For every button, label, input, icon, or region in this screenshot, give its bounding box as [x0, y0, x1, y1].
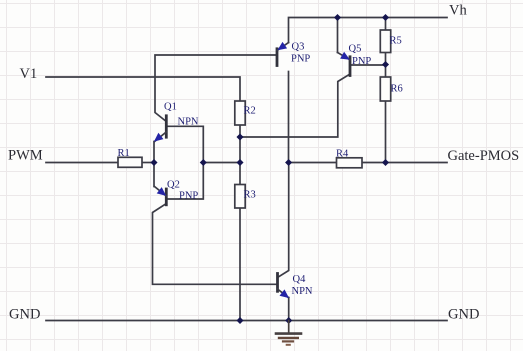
wire Q4 collector to gate line	[278, 163, 289, 278]
wire Q2 collector to Q4 base	[153, 204, 278, 285]
svg-text:PNP: PNP	[179, 190, 198, 201]
svg-text:Q2: Q2	[167, 180, 180, 191]
wire R5 bottom to R6 top	[385, 53, 387, 78]
transistor Q4	[278, 274, 290, 299]
node junction R2/R3 mid	[236, 159, 243, 166]
wire R5 top stub	[385, 18, 387, 31]
node junction emitters PWM	[150, 159, 157, 166]
wire R3 bottom to ground rail	[239, 208, 241, 321]
node junction top R5	[382, 14, 389, 21]
svg-text:R3: R3	[244, 190, 256, 201]
wire Q4 emitter to ground rail	[288, 298, 290, 321]
node junction top Q5	[334, 14, 341, 21]
svg-text:Q4: Q4	[293, 274, 307, 285]
ground	[276, 321, 301, 345]
svg-text:NPN: NPN	[178, 117, 199, 128]
svg-text:R5: R5	[390, 36, 402, 47]
svg-text:Gate-PMOS: Gate-PMOS	[448, 148, 520, 164]
svg-text:NPN: NPN	[292, 286, 313, 297]
svg-text:PNP: PNP	[291, 54, 310, 65]
node junction R5/R6 Q5 base	[382, 61, 389, 68]
wire Q5 base to R5/R6 node	[350, 64, 386, 66]
wire R1 to emitters node	[142, 162, 154, 164]
wire Q5 collector to R2/R3 node	[240, 74, 350, 137]
svg-text:Q1: Q1	[164, 102, 177, 113]
resistor R2	[235, 101, 245, 125]
wire Q1 collector to Q3 base	[155, 55, 277, 122]
wire Q1 base to Q2 base vertical	[166, 126, 203, 199]
transistor Q2	[155, 187, 167, 205]
resistor R4	[337, 158, 363, 168]
svg-text:R4: R4	[336, 149, 349, 160]
resistor R5	[380, 30, 390, 53]
wire GND rail	[46, 320, 447, 322]
resistor R1	[118, 157, 142, 167]
resistor R6	[380, 77, 390, 101]
wire gate line through R4	[289, 162, 448, 164]
transistor Q1	[154, 116, 166, 142]
transistor Q3	[277, 42, 289, 66]
transistor Q5	[338, 52, 351, 76]
wire R2 bottom through nodes to R3 top	[239, 125, 241, 185]
wire Q1 emitter vertical	[153, 142, 155, 187]
svg-text:V1: V1	[20, 66, 38, 82]
node junction R4 to R6	[382, 159, 389, 166]
wire bases node to R2/R3 node	[203, 162, 240, 164]
svg-text:GND: GND	[9, 307, 40, 323]
svg-text:PWM: PWM	[8, 148, 43, 164]
node junction R3 ground	[236, 317, 243, 324]
svg-text:R2: R2	[244, 106, 256, 117]
svg-text:R6: R6	[391, 84, 403, 95]
wire Q3 collector down to gate line	[288, 72, 290, 163]
svg-text:R1: R1	[118, 148, 130, 159]
node junction Q5 collector tap	[236, 133, 243, 140]
wire top rail Vh	[289, 18, 448, 43]
svg-text:Q3: Q3	[292, 42, 305, 53]
wire R6 bottom to gate line	[385, 101, 387, 163]
wire V1 line to R2 top	[46, 77, 240, 101]
node junction Q4 emitter ground	[285, 317, 292, 324]
node junction bases	[200, 159, 207, 166]
svg-text:Vh: Vh	[449, 3, 467, 19]
node junction Q3/Q4 collectors gate line	[285, 159, 292, 166]
svg-text:Q5: Q5	[349, 44, 362, 55]
svg-text:GND: GND	[448, 307, 479, 323]
svg-text:PNP: PNP	[352, 56, 371, 67]
resistor R3	[235, 185, 245, 209]
wire Q5 emitter to top rail	[337, 18, 339, 53]
wire PWM to R1	[46, 162, 118, 164]
